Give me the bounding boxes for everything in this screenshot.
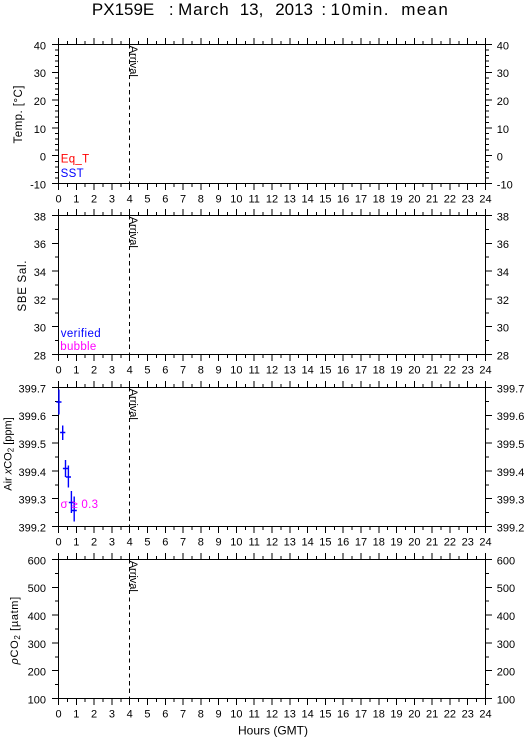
svg-text:7: 7 (180, 708, 186, 720)
svg-text:100: 100 (497, 694, 515, 706)
svg-text:-10: -10 (497, 179, 513, 191)
svg-text:3: 3 (109, 193, 115, 205)
svg-text:σ ≥ 0.3: σ ≥ 0.3 (61, 499, 99, 511)
svg-text:400: 400 (28, 611, 46, 623)
panel4-pco2 x tick labels (55, 708, 491, 720)
svg-text:2: 2 (91, 193, 97, 205)
svg-text:22: 22 (444, 193, 456, 205)
svg-text:7: 7 (180, 193, 186, 205)
svg-text:399.5: 399.5 (497, 439, 525, 451)
panel1-temp y tick labels left (30, 40, 46, 191)
svg-text:2: 2 (91, 708, 97, 720)
svg-text:Arrival: Arrival (127, 561, 139, 592)
svg-text:399.4: 399.4 (18, 467, 46, 479)
svg-text:32: 32 (497, 295, 509, 307)
svg-text:24: 24 (479, 193, 491, 205)
svg-text:399.3: 399.3 (18, 495, 46, 507)
svg-text:15: 15 (319, 364, 331, 376)
svg-text:14: 14 (301, 193, 313, 205)
svg-text:13: 13 (284, 193, 296, 205)
svg-text:399.2: 399.2 (497, 522, 525, 534)
svg-text:19: 19 (390, 193, 402, 205)
svg-text:30: 30 (497, 323, 509, 335)
svg-text:1: 1 (73, 364, 79, 376)
svg-text:200: 200 (28, 667, 46, 679)
svg-text:4: 4 (127, 708, 133, 720)
panel1-temp y tick labels right (497, 40, 513, 191)
svg-text:18: 18 (373, 536, 385, 548)
svg-text:17: 17 (355, 364, 367, 376)
svg-text:20: 20 (408, 708, 420, 720)
svg-text:14: 14 (301, 708, 313, 720)
svg-text:18: 18 (373, 193, 385, 205)
svg-text:16: 16 (337, 193, 349, 205)
svg-text:18: 18 (373, 364, 385, 376)
svg-text:9: 9 (216, 536, 222, 548)
svg-text:5: 5 (144, 536, 150, 548)
svg-text:3: 3 (109, 536, 115, 548)
panel3-xco2 y-axis ticks (52, 388, 492, 527)
svg-text:8: 8 (198, 708, 204, 720)
svg-text:399.7: 399.7 (497, 383, 525, 395)
svg-text:SBE Sal.: SBE Sal. (17, 261, 29, 312)
svg-text:32: 32 (34, 295, 46, 307)
svg-text:21: 21 (426, 708, 438, 720)
svg-text:28: 28 (497, 350, 509, 362)
svg-text:40: 40 (497, 40, 509, 52)
svg-text:13: 13 (284, 536, 296, 548)
svg-text:11: 11 (248, 364, 259, 376)
svg-text:0: 0 (55, 536, 61, 548)
panel4-pco2 y tick labels right (497, 555, 515, 706)
svg-text:10: 10 (230, 708, 242, 720)
svg-text:5: 5 (144, 708, 150, 720)
svg-text:5: 5 (144, 193, 150, 205)
svg-text:20: 20 (34, 96, 46, 108)
svg-text:21: 21 (426, 364, 438, 376)
svg-text:4: 4 (127, 193, 133, 205)
svg-text:2: 2 (91, 536, 97, 548)
svg-text:0: 0 (55, 193, 61, 205)
panel3-xco2 arrival dashed line (129, 388, 131, 527)
svg-text:6: 6 (162, 708, 168, 720)
svg-text:500: 500 (497, 583, 515, 595)
panel3-xco2 y tick labels right (497, 383, 525, 534)
svg-text:399.4: 399.4 (497, 467, 525, 479)
svg-text:0: 0 (497, 152, 503, 164)
svg-text:10: 10 (34, 124, 46, 136)
svg-text:20: 20 (497, 96, 509, 108)
svg-text:6: 6 (162, 193, 168, 205)
panel1-temp frame (59, 45, 486, 184)
svg-text:4: 4 (127, 364, 133, 376)
svg-text:14: 14 (301, 536, 313, 548)
svg-text:20: 20 (408, 536, 420, 548)
panel4-pco2 x-axis ticks (59, 553, 486, 705)
svg-text::: : (169, 0, 174, 19)
panel2-sal y tick labels left (34, 211, 46, 362)
svg-text:-10: -10 (30, 179, 46, 191)
svg-text:19: 19 (390, 364, 402, 376)
svg-text:600: 600 (28, 555, 46, 567)
svg-text:300: 300 (28, 639, 46, 651)
svg-text:Arrival: Arrival (127, 217, 139, 248)
svg-text:18: 18 (373, 708, 385, 720)
panel2-sal arrival dashed line (129, 216, 131, 355)
svg-text:12: 12 (266, 708, 278, 720)
svg-text:399.6: 399.6 (18, 411, 46, 423)
svg-text:15: 15 (319, 708, 331, 720)
svg-text:Arrival: Arrival (127, 389, 139, 420)
svg-text:8: 8 (198, 364, 204, 376)
svg-text:21: 21 (426, 193, 438, 205)
svg-text:0: 0 (55, 708, 61, 720)
panel2-sal y tick labels right (497, 211, 509, 362)
svg-text:300: 300 (497, 639, 515, 651)
svg-text:9: 9 (216, 193, 222, 205)
svg-text:2: 2 (91, 364, 97, 376)
panel3-xco2 x tick labels (55, 536, 491, 548)
svg-text:12: 12 (266, 364, 278, 376)
chart title (92, 0, 448, 19)
svg-text:2013: 2013 (275, 0, 313, 19)
svg-text:22: 22 (444, 536, 456, 548)
svg-text:8: 8 (198, 193, 204, 205)
panel1-temp arrival dashed line (129, 45, 131, 184)
panel2-sal y-axis ticks (52, 216, 492, 355)
svg-text:0: 0 (55, 364, 61, 376)
svg-text:36: 36 (34, 239, 46, 251)
svg-text:38: 38 (34, 211, 46, 223)
svg-text:19: 19 (390, 708, 402, 720)
svg-text:8: 8 (198, 536, 204, 548)
panel4-pco2 frame (59, 560, 486, 699)
panel2-sal x tick labels (55, 364, 491, 376)
svg-text:Air xCO2 [ppm]: Air xCO2 [ppm] (3, 417, 16, 491)
svg-text:17: 17 (355, 536, 367, 548)
svg-text:0: 0 (40, 152, 46, 164)
panel2-sal frame (59, 216, 486, 355)
panel4-pco2 arrival dashed line (129, 560, 131, 699)
svg-text:5: 5 (144, 364, 150, 376)
svg-text::: : (321, 0, 326, 19)
svg-text:23: 23 (462, 364, 474, 376)
panel1-temp x-axis ticks (59, 38, 486, 190)
svg-text:400: 400 (497, 611, 515, 623)
svg-text:7: 7 (180, 364, 186, 376)
svg-text:399.7: 399.7 (18, 383, 46, 395)
svg-text:12: 12 (266, 536, 278, 548)
svg-text:30: 30 (34, 68, 46, 80)
svg-text:16: 16 (337, 536, 349, 548)
svg-text:3: 3 (109, 708, 115, 720)
svg-text:23: 23 (462, 536, 474, 548)
panel4-pco2 y-axis ticks (52, 560, 492, 699)
svg-text:13,: 13, (240, 0, 264, 19)
svg-text:mean: mean (401, 0, 448, 19)
svg-text:1: 1 (73, 708, 79, 720)
svg-text:ρCO2 [µatm]: ρCO2 [µatm] (9, 596, 22, 665)
data series: Air xCO2 error bars (blue) (56, 390, 77, 522)
svg-text:Hours (GMT): Hours (GMT) (238, 724, 308, 738)
panel1-temp x tick labels (55, 193, 491, 205)
svg-text:13: 13 (284, 708, 296, 720)
svg-text:19: 19 (390, 536, 402, 548)
svg-text:100: 100 (28, 694, 46, 706)
svg-text:30: 30 (497, 68, 509, 80)
svg-text:4: 4 (127, 536, 133, 548)
svg-text:12: 12 (266, 193, 278, 205)
svg-text:30: 30 (34, 323, 46, 335)
svg-text:3: 3 (109, 364, 115, 376)
svg-text:bubble: bubble (60, 341, 96, 353)
svg-text:399.5: 399.5 (18, 439, 46, 451)
svg-text:15: 15 (319, 536, 331, 548)
svg-text:17: 17 (355, 193, 367, 205)
svg-text:March: March (178, 0, 229, 19)
svg-text:23: 23 (462, 193, 474, 205)
svg-text:17: 17 (355, 708, 367, 720)
svg-text:7: 7 (180, 536, 186, 548)
svg-text:9: 9 (216, 708, 222, 720)
svg-text:1: 1 (73, 193, 79, 205)
svg-text:SST: SST (61, 168, 84, 180)
svg-text:Arrival: Arrival (127, 46, 139, 77)
svg-text:399.3: 399.3 (497, 495, 525, 507)
svg-text:1: 1 (73, 536, 79, 548)
svg-text:11: 11 (248, 708, 259, 720)
svg-text:38: 38 (497, 211, 509, 223)
svg-text:10: 10 (230, 364, 242, 376)
svg-text:20: 20 (408, 193, 420, 205)
svg-text:Eq_T: Eq_T (61, 154, 89, 166)
svg-text:6: 6 (162, 364, 168, 376)
svg-text:20: 20 (408, 364, 420, 376)
svg-text:16: 16 (337, 708, 349, 720)
svg-text:600: 600 (497, 555, 515, 567)
svg-text:verified: verified (61, 328, 101, 340)
panel4-pco2 y tick labels left (28, 555, 46, 706)
svg-text:10: 10 (230, 193, 242, 205)
svg-text:11: 11 (248, 193, 259, 205)
svg-text:9: 9 (216, 364, 222, 376)
svg-text:10min.: 10min. (331, 0, 389, 19)
svg-text:16: 16 (337, 364, 349, 376)
svg-text:15: 15 (319, 193, 331, 205)
svg-text:Temp. [°C]: Temp. [°C] (13, 86, 25, 144)
panel2-sal x-axis ticks (59, 209, 486, 361)
svg-text:22: 22 (444, 364, 456, 376)
svg-text:23: 23 (462, 708, 474, 720)
svg-text:13: 13 (284, 364, 296, 376)
svg-text:40: 40 (34, 40, 46, 52)
svg-text:PX159E: PX159E (92, 0, 154, 19)
svg-text:10: 10 (230, 536, 242, 548)
panel1-temp y-axis ticks (52, 45, 492, 184)
svg-text:22: 22 (444, 708, 456, 720)
svg-text:11: 11 (248, 536, 259, 548)
svg-text:6: 6 (162, 536, 168, 548)
svg-text:399.6: 399.6 (497, 411, 525, 423)
panel3-xco2 frame (59, 388, 486, 527)
panel3-xco2 y tick labels left (18, 383, 46, 534)
panel3-xco2 x-axis ticks (59, 381, 486, 533)
svg-text:34: 34 (34, 267, 46, 279)
svg-text:24: 24 (479, 708, 491, 720)
svg-text:36: 36 (497, 239, 509, 251)
svg-text:500: 500 (28, 583, 46, 595)
svg-text:10: 10 (497, 124, 509, 136)
svg-text:24: 24 (479, 364, 491, 376)
svg-text:399.2: 399.2 (18, 522, 46, 534)
svg-text:200: 200 (497, 667, 515, 679)
svg-text:14: 14 (301, 364, 313, 376)
svg-text:24: 24 (479, 536, 491, 548)
svg-text:34: 34 (497, 267, 509, 279)
svg-text:28: 28 (34, 350, 46, 362)
svg-text:21: 21 (426, 536, 438, 548)
